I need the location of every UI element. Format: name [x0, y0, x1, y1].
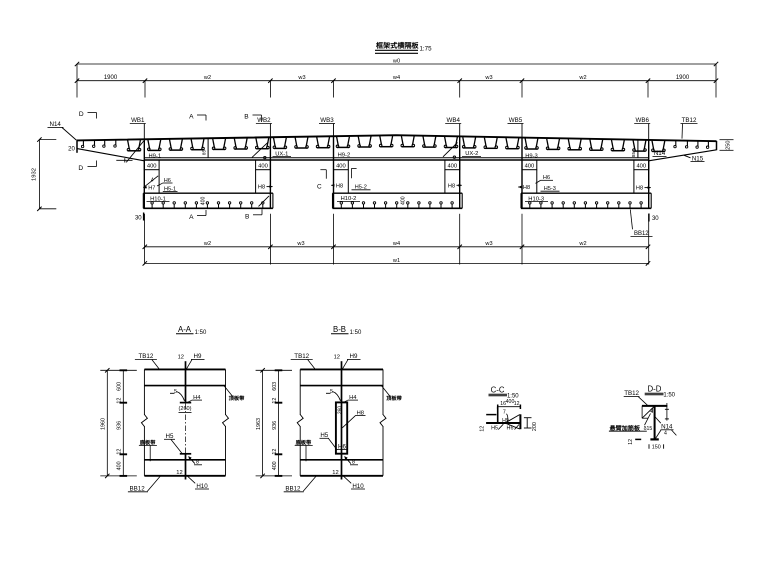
underline UX-1: [273, 156, 292, 158]
D-D weld 4 flag: [652, 408, 654, 413]
D-D dim 150 ticks: [649, 444, 664, 448]
H10 leader A-A: [188, 476, 196, 483]
svg-text:30: 30: [135, 215, 142, 221]
top dim extension line right end: [715, 64, 717, 98]
section B-B full-height stiffener: [341, 361, 343, 479]
bottom dim extension lines: [145, 214, 649, 265]
svg-text:12: 12: [117, 449, 123, 455]
web WB4: [445, 124, 461, 209]
section dim chain line at x=278.5: [275, 370, 283, 476]
C-C end plate bar: [519, 414, 521, 429]
D-D gusset bottom tick: [642, 417, 648, 419]
box1 bottom strip ribs H10: [151, 202, 264, 208]
svg-text:400: 400: [525, 164, 535, 170]
H6 box3 leader: [536, 180, 541, 183]
svg-text:H9: H9: [502, 418, 509, 424]
underline H10-1: [147, 201, 170, 203]
svg-text:400: 400: [636, 164, 646, 170]
section mark C right elbow: [352, 168, 357, 178]
H4 leader B-B: [343, 400, 348, 402]
svg-text:600: 600: [117, 382, 123, 391]
svg-text:1:50: 1:50: [663, 392, 675, 398]
svg-text:400: 400: [200, 196, 206, 205]
soffit leader line left of WB1: [116, 158, 132, 162]
svg-text:7: 7: [503, 410, 506, 416]
svg-text:WB4: WB4: [446, 117, 460, 124]
section mark C left elbow: [320, 170, 326, 179]
section A-A bottom stiffener H5: [180, 454, 191, 480]
svg-text:TB12: TB12: [139, 353, 154, 360]
svg-text:B-B: B-B: [333, 325, 346, 334]
svg-text:TB12: TB12: [682, 117, 697, 124]
left deck tip end plate: [76, 140, 78, 153]
underline H9 A-A: [191, 358, 205, 360]
svg-text:936: 936: [272, 421, 278, 430]
D-D gusset left edge: [641, 406, 643, 418]
BB12 leader B-B: [303, 476, 316, 491]
underline H5-3: [541, 190, 560, 192]
C-C dim 200 bracket: [524, 418, 532, 428]
section mark A bottom: [197, 210, 206, 216]
D-D top plate: [642, 405, 667, 407]
svg-text:20: 20: [68, 147, 75, 153]
svg-text:400: 400: [400, 196, 406, 205]
stiffener edge diagonal at WB1: [126, 141, 144, 162]
svg-text:A-A: A-A: [178, 325, 192, 334]
underline N15: [691, 161, 705, 163]
svg-text:1:50: 1:50: [195, 330, 207, 336]
underline N14 left: [48, 126, 64, 128]
H8 leader B-B: [342, 416, 355, 428]
svg-text:BB12: BB12: [285, 485, 301, 492]
dim line 1900-w2-w3-w4-w3-w2-1900: [77, 80, 716, 82]
svg-text:H9-2: H9-2: [338, 152, 351, 158]
svg-text:260: 260: [338, 406, 344, 415]
C-C stiffener triangle: [506, 415, 519, 429]
node dot left of WB4: [453, 156, 455, 158]
D-D bottom 12 tick: [635, 438, 641, 440]
weld mark 8 A-A: [189, 456, 203, 464]
underline UX-2: [462, 155, 481, 157]
box3 right post inner edge: [633, 170, 635, 194]
box3 bottom strip: [521, 193, 651, 208]
svg-text:WB2: WB2: [257, 117, 271, 124]
weld mark 5 B-B: [326, 392, 341, 401]
svg-text:w2: w2: [203, 241, 211, 247]
svg-text:A: A: [189, 114, 194, 121]
underline H5 A-A: [164, 438, 175, 440]
section A-A outline: [144, 369, 225, 475]
svg-text:400: 400: [258, 164, 268, 170]
D-D 悬臂加筋板 leader: [645, 414, 651, 426]
svg-text:4: 4: [649, 408, 652, 414]
svg-text:250: 250: [726, 141, 732, 150]
顶板带 leader A-A: [224, 386, 233, 397]
box2 bottom strip ribs H10: [340, 202, 453, 208]
node dot left of WB2: [264, 156, 266, 158]
strip1 end diagonal: [259, 196, 270, 207]
svg-text:H9: H9: [350, 353, 358, 360]
underline TB12 B-B: [291, 358, 313, 360]
svg-text:1:75: 1:75: [419, 46, 432, 53]
top dim extension line left end: [76, 64, 78, 98]
svg-text:WB3: WB3: [320, 117, 334, 124]
section A-A title underline: [176, 333, 194, 335]
underline H6 box3: [541, 179, 554, 181]
D-D N14 leaders: [655, 417, 676, 438]
svg-text:150: 150: [652, 445, 661, 451]
svg-text:H8: H8: [258, 185, 265, 191]
underline H5-2: [352, 189, 371, 191]
svg-text:1900: 1900: [676, 75, 690, 81]
svg-text:400: 400: [147, 164, 157, 170]
svg-text:85: 85: [201, 150, 206, 156]
svg-text:400: 400: [117, 461, 123, 470]
stiffener at box1 mid with 85 label: [207, 138, 209, 157]
underline N14 right: [653, 155, 667, 157]
svg-text:12: 12: [178, 354, 184, 360]
TB12 leader B-B: [308, 360, 316, 370]
underline 底板带 B-B: [295, 444, 313, 446]
UX-1 leader to deck rib: [252, 142, 269, 158]
section B-B post box: [336, 402, 347, 453]
underline H5-1: [163, 191, 178, 193]
svg-text:400: 400: [272, 461, 278, 470]
weld diagonal box1 left post: [145, 176, 158, 186]
svg-text:H9-3: H9-3: [525, 154, 538, 160]
box1 left 400 block: [144, 160, 159, 170]
svg-text:1960: 1960: [101, 418, 107, 430]
D-D underline 悬臂加筋板: [609, 430, 647, 432]
underline (260) A-A: [179, 411, 192, 413]
web WB1: [130, 124, 146, 209]
svg-text:200: 200: [532, 422, 538, 431]
C-C left flange tick: [486, 414, 496, 416]
drawing title 框架式横隔板: [376, 42, 418, 49]
svg-text:D: D: [79, 111, 84, 118]
right cantilever soffit plate N15: [649, 150, 717, 161]
right 30 tick: [648, 214, 650, 222]
N14 left leader: [62, 128, 76, 141]
underline H4 B-B: [348, 399, 358, 401]
svg-text:5: 5: [330, 389, 333, 395]
right deck tip end plate: [716, 141, 718, 150]
box2 left post inner edge: [347, 170, 349, 194]
svg-text:w2: w2: [578, 241, 586, 247]
dim line w0: [77, 63, 716, 65]
svg-text:(260): (260): [178, 406, 191, 412]
C-C chord plate H9: [486, 422, 520, 424]
H5 leader A-A: [171, 440, 182, 454]
svg-text:w0: w0: [392, 59, 400, 65]
svg-text:H5: H5: [491, 425, 498, 431]
underline 底板带 A-A: [139, 444, 157, 446]
box2 bottom strip: [333, 193, 463, 208]
left cantilever soffit plate: [77, 149, 144, 161]
svg-text:C: C: [317, 183, 322, 190]
svg-text:1:50: 1:50: [350, 330, 362, 336]
underline H10 B-B: [351, 488, 365, 490]
svg-text:1900: 1900: [104, 75, 118, 81]
H4 leader A-A: [187, 400, 192, 402]
svg-text:12: 12: [479, 426, 485, 432]
box2 right post inner edge: [444, 170, 446, 194]
section A-A centerline: [185, 404, 187, 454]
left cantilever flat ribs: [81, 140, 116, 147]
顶板带 leader B-B: [382, 386, 391, 397]
svg-text:w3: w3: [296, 241, 304, 247]
svg-text:12: 12: [176, 470, 182, 476]
section A-A top stiffener H4: [180, 361, 191, 402]
svg-text:12: 12: [628, 439, 634, 445]
web WB5: [508, 124, 524, 209]
底板带 elbow leader A-A: [149, 446, 151, 462]
C-C left extension line: [497, 407, 499, 424]
svg-text:H8: H8: [336, 183, 343, 189]
svg-text:WB6: WB6: [635, 117, 649, 124]
deck U-ribs (N14 closed ribs): [127, 136, 665, 152]
weld mark 5 A-A: [170, 392, 185, 401]
H6 box1 leader: [157, 183, 163, 186]
svg-text:30: 30: [652, 216, 659, 222]
C-C weld 7 arrow: [507, 414, 508, 422]
section B-B edge break marks: [297, 415, 386, 427]
svg-text:400: 400: [336, 164, 346, 170]
D-D right extension line: [665, 403, 669, 421]
underline BB12 main view: [631, 236, 653, 238]
D-D gusset hypotenuse: [642, 406, 654, 418]
svg-text:B: B: [244, 114, 249, 121]
H9 leader A-A: [186, 360, 192, 370]
section mark B top: [253, 115, 262, 121]
svg-text:A: A: [189, 214, 194, 221]
section dim chain line at x=123.3: [120, 370, 128, 476]
BB12 leader main view: [630, 210, 632, 230]
underline H9 B-B: [347, 358, 361, 360]
svg-text:H9: H9: [194, 353, 202, 360]
svg-text:w4: w4: [392, 75, 400, 81]
svg-text:BB12: BB12: [130, 485, 146, 492]
top chord strip H9 upper line: [144, 157, 648, 159]
D-D cantilever stiffener web: [654, 406, 656, 439]
H5 leader B-B: [329, 439, 338, 451]
svg-text:1963: 1963: [256, 418, 262, 430]
box2 left 400 block: [334, 160, 349, 170]
svg-text:12: 12: [272, 449, 278, 455]
vertical dim 1932: [37, 137, 56, 211]
underline H6 B-B: [337, 448, 348, 450]
svg-text:85: 85: [631, 152, 636, 158]
svg-text:H7: H7: [148, 185, 155, 191]
svg-text:w3: w3: [484, 241, 492, 247]
top chord strip H9 lower line: [144, 159, 648, 161]
section A-A edge break marks: [141, 415, 228, 427]
dim line w2-w3-w4-w3-w2: [143, 245, 651, 249]
section mark A top: [197, 115, 206, 121]
D-D title double underline: [645, 393, 664, 395]
left 30 tick: [143, 213, 145, 221]
底板带 elbow leader B-B: [305, 446, 307, 462]
svg-text:B: B: [245, 214, 250, 221]
D-D underline TB12: [624, 396, 640, 398]
svg-text:4: 4: [151, 177, 154, 183]
N15 leader: [684, 155, 691, 158]
svg-text:603: 603: [272, 382, 278, 391]
svg-text:400: 400: [447, 164, 457, 170]
box3 left 400 block: [522, 160, 537, 170]
underline H6 box1: [163, 182, 173, 184]
TB12 leader A-A: [152, 360, 160, 370]
underline H10-3: [525, 201, 548, 203]
web WB6: [634, 124, 650, 209]
svg-text:8: 8: [352, 459, 355, 465]
svg-text:936: 936: [117, 421, 123, 430]
box1 right 400 block: [256, 160, 271, 170]
svg-text:8: 8: [196, 459, 199, 465]
title double underline: [375, 49, 418, 51]
svg-text:w2: w2: [578, 75, 586, 81]
underline H8 B-B: [355, 415, 366, 417]
svg-text:4: 4: [664, 430, 667, 436]
svg-text:D-D: D-D: [647, 384, 661, 393]
svg-text:WB5: WB5: [509, 117, 523, 124]
svg-text:12: 12: [117, 398, 123, 404]
deck top plate: [77, 135, 717, 141]
TB12 leader: [681, 124, 698, 139]
svg-text:w3: w3: [297, 75, 305, 81]
box3 bottom strip ribs H10: [529, 202, 643, 208]
dim 250 ticks at right tip: [720, 140, 734, 151]
section mark B bottom: [253, 209, 262, 215]
svg-text:w2: w2: [203, 75, 211, 81]
section B-B outline: [300, 369, 383, 475]
underline BB12 A-A: [128, 491, 148, 493]
svg-text:WB1: WB1: [131, 117, 145, 124]
box3 right 400 block: [634, 160, 649, 170]
svg-text:H9-1: H9-1: [149, 153, 162, 159]
box1 right post inner edge: [255, 170, 257, 194]
underline H5 B-B: [320, 437, 330, 439]
section B-B title underline: [331, 333, 349, 335]
svg-text:12: 12: [332, 470, 338, 476]
weld mark 8 B-B: [345, 456, 359, 464]
svg-text:C-C: C-C: [491, 385, 505, 394]
D-D TB12 leader: [638, 397, 648, 406]
svg-text:N14: N14: [50, 121, 62, 128]
svg-text:1932: 1932: [31, 168, 37, 181]
stiffener near WB6 with 85 label: [637, 140, 639, 158]
svg-text:D: D: [78, 165, 83, 172]
underline H4 A-A: [192, 399, 202, 401]
BB12 leader A-A: [147, 476, 160, 491]
svg-text:w1: w1: [392, 258, 400, 264]
web WB2: [256, 124, 272, 209]
section overall dim line at x=107.3: [100, 368, 137, 478]
underline BB12 B-B: [284, 491, 304, 493]
H10 leader B-B: [344, 476, 352, 483]
box1 bottom strip: [143, 193, 273, 208]
underline H10-2: [337, 200, 360, 202]
C-C leader slashes: [498, 424, 519, 429]
top dim boundary ticks: [144, 81, 146, 98]
svg-text:H8: H8: [523, 185, 530, 191]
underline TB12 A-A: [135, 358, 157, 360]
svg-text:TB12: TB12: [294, 353, 309, 360]
D-D underline N14: [661, 429, 674, 431]
right cantilever flat ribs: [674, 141, 709, 148]
box2 right 400 block: [445, 160, 460, 170]
section mark D bottom: [88, 161, 97, 167]
box3 left post inner edge: [536, 170, 538, 194]
svg-text:w4: w4: [392, 241, 400, 247]
svg-text:12: 12: [272, 398, 278, 404]
svg-text:12: 12: [334, 354, 340, 360]
D-D bottom end bar: [650, 438, 658, 440]
underline H10 A-A: [195, 488, 209, 490]
web WB3: [319, 124, 335, 209]
svg-text:H6: H6: [507, 425, 514, 431]
section mark D top: [88, 113, 97, 119]
H9 leader B-B: [342, 360, 348, 370]
section overall dim line at x=262.6: [256, 368, 292, 478]
svg-text:H8: H8: [636, 186, 643, 192]
svg-text:w3: w3: [484, 75, 492, 81]
svg-text:12: 12: [514, 401, 520, 407]
svg-text:H8: H8: [448, 183, 455, 189]
dim line w1: [143, 261, 651, 265]
UX-2 leader to deck rib: [443, 143, 458, 157]
box1 left post inner edge: [158, 170, 160, 194]
C-C title double underline: [489, 394, 508, 396]
C-C dim line: [498, 405, 521, 410]
svg-text:5: 5: [174, 389, 177, 395]
